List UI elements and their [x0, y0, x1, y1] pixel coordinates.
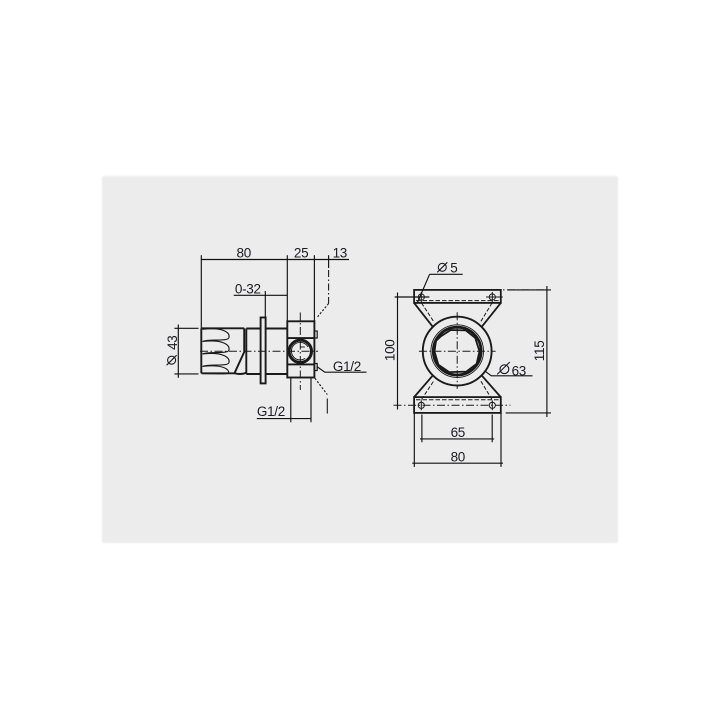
svg-text:G1/2: G1/2: [257, 404, 285, 419]
svg-text:0-32: 0-32: [235, 281, 261, 296]
svg-text:63: 63: [512, 363, 526, 378]
svg-text:80: 80: [451, 449, 465, 464]
svg-text:G1/2: G1/2: [333, 359, 361, 374]
svg-text:13: 13: [333, 245, 347, 260]
svg-text:25: 25: [294, 245, 308, 260]
svg-text:43: 43: [165, 335, 180, 349]
svg-text:80: 80: [236, 245, 250, 260]
svg-text:100: 100: [383, 339, 398, 361]
svg-text:65: 65: [451, 425, 465, 440]
svg-text:115: 115: [532, 341, 547, 362]
svg-text:5: 5: [450, 260, 457, 275]
